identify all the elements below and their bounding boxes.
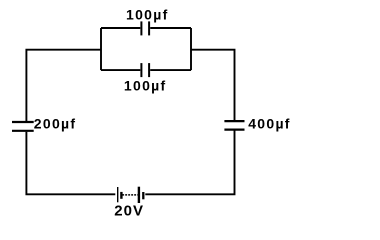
svg-text:100µf: 100µf bbox=[126, 6, 169, 22]
svg-text:400µf: 400µf bbox=[248, 115, 291, 131]
svg-text:200µf: 200µf bbox=[34, 115, 77, 131]
svg-text:100µf: 100µf bbox=[124, 78, 167, 94]
svg-text:20V: 20V bbox=[114, 202, 144, 219]
